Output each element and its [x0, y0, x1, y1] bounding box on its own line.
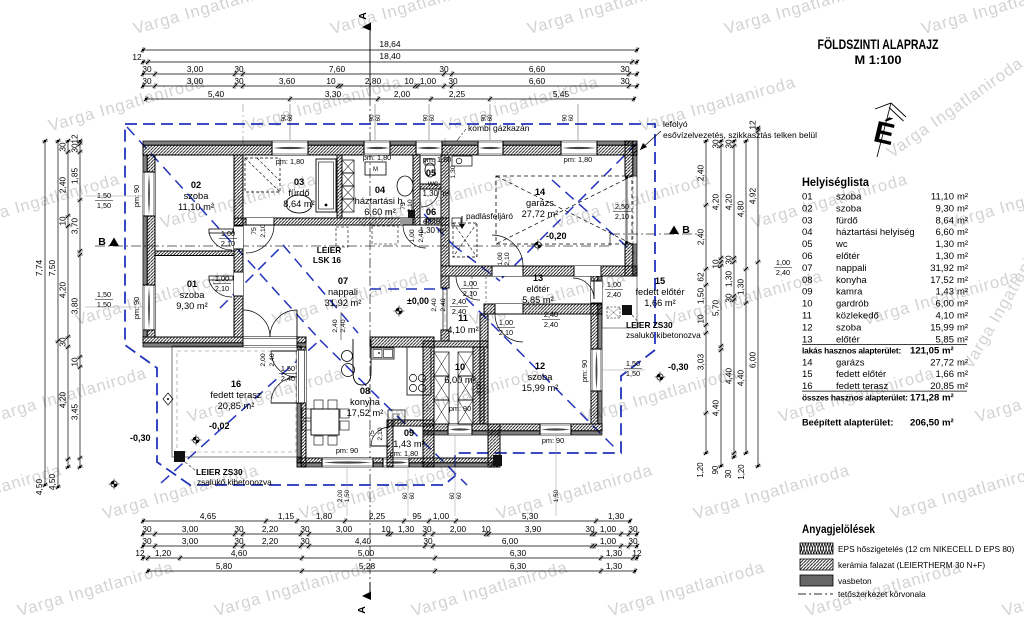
- svg-text:04: 04: [375, 185, 386, 195]
- svg-text:1,30: 1,30: [736, 279, 746, 296]
- svg-text:30: 30: [711, 139, 721, 149]
- svg-text:nappali: nappali: [328, 287, 358, 297]
- svg-text:06: 06: [802, 251, 813, 262]
- svg-text:1,00: 1,00: [409, 229, 416, 242]
- svg-text:31,92 m²: 31,92 m²: [325, 298, 362, 308]
- svg-text:12: 12: [132, 52, 142, 62]
- svg-text:m²: m²: [957, 322, 968, 333]
- svg-text:1,30 m²: 1,30 m²: [422, 189, 449, 198]
- svg-text:EPS hőszigetelés (12 cm NIKECE: EPS hőszigetelés (12 cm NIKECELL D EPS 8…: [838, 544, 1015, 554]
- svg-text:-0,30: -0,30: [130, 433, 151, 443]
- svg-text:kombi gázkazán: kombi gázkazán: [468, 123, 530, 133]
- svg-text:30: 30: [300, 524, 310, 534]
- svg-text:04: 04: [802, 227, 813, 238]
- svg-text:előtér: előtér: [836, 251, 860, 262]
- svg-text:4,40: 4,40: [736, 370, 746, 387]
- svg-text:1,66 m²: 1,66 m²: [644, 298, 676, 308]
- svg-text:60: 60: [487, 114, 494, 122]
- svg-text:háztartási helyiség: háztartási helyiség: [836, 227, 915, 238]
- svg-text:10: 10: [802, 299, 813, 310]
- svg-text:4,92: 4,92: [748, 188, 758, 205]
- svg-text:1,20: 1,20: [696, 462, 705, 478]
- svg-text:60: 60: [456, 492, 463, 500]
- svg-text:1,00: 1,00: [600, 536, 617, 546]
- svg-text:m²: m²: [957, 287, 968, 298]
- svg-text:3,00: 3,00: [187, 76, 204, 86]
- svg-text:m²: m²: [957, 203, 968, 214]
- svg-text:8,64: 8,64: [936, 215, 955, 226]
- svg-text:05: 05: [802, 239, 813, 250]
- svg-text:2,40: 2,40: [281, 374, 295, 383]
- svg-text:m²: m²: [957, 215, 968, 226]
- svg-text:m²: m²: [957, 311, 968, 322]
- svg-text:2,40: 2,40: [431, 298, 438, 311]
- svg-text:5,00: 5,00: [358, 548, 375, 558]
- svg-text:4,20: 4,20: [58, 282, 68, 299]
- svg-text:30: 30: [142, 524, 152, 534]
- svg-text:1,43: 1,43: [936, 287, 955, 298]
- svg-text:14: 14: [535, 187, 546, 197]
- svg-text:pm: 1,80: pm: 1,80: [390, 449, 418, 458]
- svg-text:7,60: 7,60: [329, 64, 346, 74]
- svg-text:2,00: 2,00: [394, 89, 411, 99]
- svg-text:1,50: 1,50: [626, 359, 640, 368]
- svg-text:1,20: 1,20: [737, 464, 746, 480]
- svg-text:18,40: 18,40: [379, 51, 401, 61]
- svg-text:62: 62: [696, 272, 706, 282]
- svg-text:Beépített alapterület:: Beépített alapterület:: [802, 418, 893, 428]
- svg-text:padlásfeljáró: padlásfeljáró: [466, 211, 513, 221]
- svg-text:1,00: 1,00: [463, 279, 477, 288]
- svg-text:1,66: 1,66: [936, 369, 955, 380]
- svg-text:pm: 1,80: pm: 1,80: [276, 157, 304, 166]
- svg-text:LEIER ZS30: LEIER ZS30: [626, 320, 673, 330]
- svg-text:1,50: 1,50: [97, 191, 111, 200]
- svg-text:pm: 1,80: pm: 1,80: [564, 155, 592, 164]
- svg-text:fedett terasz: fedett terasz: [210, 390, 262, 400]
- svg-text:30: 30: [628, 536, 638, 546]
- svg-text:pm: 1,80: pm: 1,80: [363, 153, 391, 162]
- svg-text:9,30: 9,30: [936, 203, 955, 214]
- svg-text:30: 30: [620, 76, 630, 86]
- svg-text:5,28: 5,28: [359, 561, 376, 571]
- svg-text:-0,30: -0,30: [668, 362, 689, 372]
- svg-text:60: 60: [287, 114, 294, 122]
- svg-text:konyha: konyha: [836, 275, 867, 286]
- svg-text:4,10: 4,10: [936, 311, 955, 322]
- svg-text:m²: m²: [957, 381, 968, 392]
- svg-text:2,40: 2,40: [269, 353, 276, 366]
- svg-text:30: 30: [724, 255, 734, 265]
- svg-text:4,65: 4,65: [200, 511, 217, 521]
- svg-text:30: 30: [724, 469, 733, 478]
- svg-text:garázs: garázs: [836, 357, 865, 368]
- svg-text:3,00: 3,00: [182, 536, 199, 546]
- svg-text:2,40: 2,40: [696, 165, 706, 182]
- svg-text:08: 08: [360, 386, 370, 396]
- svg-text:90: 90: [711, 465, 720, 474]
- svg-text:10: 10: [70, 357, 80, 367]
- svg-text:kamra: kamra: [836, 287, 863, 298]
- svg-text:02: 02: [191, 180, 201, 190]
- svg-text:13: 13: [533, 273, 543, 283]
- svg-text:10: 10: [481, 524, 491, 534]
- svg-text:lefolyó: lefolyó: [663, 119, 688, 129]
- svg-text:M 1:100: M 1:100: [855, 53, 902, 67]
- svg-text:m²: m²: [957, 275, 968, 286]
- svg-text:6,30: 6,30: [510, 561, 527, 571]
- svg-text:m²: m²: [957, 263, 968, 274]
- svg-text:2,40: 2,40: [544, 310, 558, 319]
- svg-text:2,40: 2,40: [418, 229, 425, 242]
- svg-text:2,20: 2,20: [262, 524, 279, 534]
- svg-text:3,80: 3,80: [70, 298, 80, 315]
- svg-text:fedett előtér: fedett előtér: [836, 369, 886, 380]
- svg-text:1,50: 1,50: [281, 364, 295, 373]
- svg-text:1,30: 1,30: [724, 271, 734, 288]
- svg-text:10: 10: [381, 524, 391, 534]
- svg-text:6,00: 6,00: [502, 536, 519, 546]
- svg-text:lakás hasznos alapterület:: lakás hasznos alapterület:: [802, 346, 901, 356]
- svg-text:A: A: [356, 606, 368, 614]
- svg-text:m²: m²: [957, 251, 968, 262]
- svg-text:1,50: 1,50: [696, 288, 706, 305]
- svg-text:fürdő: fürdő: [836, 215, 858, 226]
- svg-text:konyha: konyha: [350, 397, 381, 407]
- svg-text:03: 03: [294, 177, 304, 187]
- svg-text:07: 07: [338, 276, 348, 286]
- svg-text:2,10: 2,10: [215, 284, 229, 293]
- svg-text:5,85 m²: 5,85 m²: [522, 295, 554, 305]
- svg-text:LSK 16: LSK 16: [313, 255, 342, 265]
- svg-text:2,50: 2,50: [615, 202, 629, 211]
- svg-text:8,64 m²: 8,64 m²: [283, 199, 315, 209]
- svg-text:Anyagjelölések: Anyagjelölések: [802, 524, 876, 536]
- svg-text:4,50: 4,50: [34, 479, 44, 496]
- svg-text:előtér: előtér: [526, 284, 549, 294]
- svg-text:1,30: 1,30: [606, 548, 623, 558]
- svg-text:4,40: 4,40: [724, 368, 734, 385]
- svg-text:2,25: 2,25: [449, 89, 466, 99]
- svg-text:4,80: 4,80: [736, 201, 746, 218]
- svg-text:FÖLDSZINTI ALAPRAJZ: FÖLDSZINTI ALAPRAJZ: [818, 36, 939, 52]
- svg-text:wc: wc: [835, 239, 848, 250]
- svg-text:2,00: 2,00: [337, 489, 344, 502]
- svg-text:4,10 m²: 4,10 m²: [447, 325, 479, 335]
- svg-text:4,20: 4,20: [724, 194, 734, 211]
- svg-text:B: B: [98, 236, 106, 248]
- svg-text:12: 12: [70, 134, 80, 144]
- svg-text:12: 12: [535, 361, 545, 371]
- svg-text:esővízelvezetés, szikkasztás t: esővízelvezetés, szikkasztás telken belü…: [663, 130, 817, 140]
- svg-text:LEIER ZS30: LEIER ZS30: [196, 467, 243, 477]
- svg-text:60: 60: [449, 492, 456, 500]
- svg-text:1,85: 1,85: [70, 168, 80, 185]
- svg-text:garázs: garázs: [526, 198, 554, 208]
- svg-text:2,40: 2,40: [440, 298, 447, 311]
- svg-text:1,30: 1,30: [398, 524, 415, 534]
- svg-text:m²: m²: [957, 369, 968, 380]
- svg-text:2,40: 2,40: [58, 177, 68, 194]
- svg-text:2,40: 2,40: [696, 229, 706, 246]
- svg-text:1,50: 1,50: [97, 300, 111, 309]
- svg-text:12: 12: [135, 548, 145, 558]
- svg-text:B: B: [682, 224, 690, 236]
- svg-text:pm: 90: pm: 90: [449, 404, 471, 413]
- svg-text:1,20: 1,20: [155, 548, 172, 558]
- svg-text:3,30: 3,30: [325, 89, 342, 99]
- svg-text:17,52 m²: 17,52 m²: [347, 408, 384, 418]
- svg-text:szoba: szoba: [184, 191, 210, 201]
- svg-text:4,50: 4,50: [47, 474, 57, 491]
- svg-text:15,99: 15,99: [930, 322, 954, 333]
- svg-text:30: 30: [142, 536, 152, 546]
- svg-text:5,80: 5,80: [216, 561, 233, 571]
- svg-text:fedett előtér: fedett előtér: [635, 287, 684, 297]
- svg-text:2,40: 2,40: [332, 319, 339, 332]
- svg-text:1,00: 1,00: [221, 229, 235, 238]
- svg-text:31,92: 31,92: [930, 263, 954, 274]
- svg-text:15,99 m²: 15,99 m²: [522, 383, 559, 393]
- svg-text:4,40: 4,40: [355, 536, 372, 546]
- svg-text:közlekedő: közlekedő: [836, 311, 879, 322]
- svg-text:3,00: 3,00: [476, 381, 483, 394]
- svg-text:2,25: 2,25: [369, 511, 386, 521]
- svg-text:3,90: 3,90: [525, 524, 542, 534]
- svg-text:10: 10: [58, 216, 68, 226]
- svg-text:02: 02: [802, 203, 813, 214]
- svg-text:15: 15: [655, 276, 665, 286]
- svg-text:5,70: 5,70: [711, 300, 721, 317]
- svg-text:27,72: 27,72: [930, 357, 954, 368]
- svg-text:60: 60: [402, 492, 409, 500]
- svg-text:2,10: 2,10: [260, 224, 267, 237]
- svg-text:pm: 90: pm: 90: [336, 446, 358, 455]
- svg-text:pm: 90: pm: 90: [542, 436, 564, 445]
- svg-text:1,50: 1,50: [97, 201, 111, 210]
- svg-text:szoba: szoba: [836, 192, 862, 203]
- svg-text:3,03: 3,03: [696, 354, 706, 371]
- svg-text:6,60: 6,60: [529, 64, 546, 74]
- svg-text:08: 08: [802, 275, 813, 286]
- svg-text:m²: m²: [957, 239, 968, 250]
- svg-text:3,45: 3,45: [70, 404, 80, 421]
- svg-text:1,30: 1,30: [606, 561, 623, 571]
- svg-text:05: 05: [426, 168, 436, 178]
- svg-text:M: M: [373, 167, 378, 173]
- svg-text:30: 30: [142, 64, 152, 74]
- svg-text:09: 09: [802, 287, 813, 298]
- svg-text:10: 10: [711, 259, 721, 269]
- svg-text:1,30: 1,30: [936, 239, 955, 250]
- svg-text:30: 30: [620, 64, 630, 74]
- svg-text:30: 30: [423, 536, 433, 546]
- svg-text:30: 30: [70, 143, 80, 153]
- svg-text:A: A: [357, 12, 369, 20]
- svg-text:gardrób: gardrób: [836, 299, 869, 310]
- svg-text:6,30: 6,30: [510, 548, 527, 558]
- svg-text:2,10: 2,10: [499, 328, 513, 337]
- svg-text:2,10: 2,10: [407, 199, 414, 212]
- svg-text:30: 30: [422, 524, 432, 534]
- svg-text:75: 75: [251, 227, 258, 235]
- svg-text:1,30: 1,30: [450, 165, 457, 178]
- svg-text:10: 10: [326, 76, 336, 86]
- svg-text:75: 75: [400, 202, 407, 210]
- svg-text:kerámia falazat (LEIERTHERM 30: kerámia falazat (LEIERTHERM 30 N+F): [838, 560, 985, 570]
- svg-text:6,60: 6,60: [529, 76, 546, 86]
- svg-text:16: 16: [231, 379, 241, 389]
- svg-text:7,50: 7,50: [47, 260, 57, 277]
- svg-text:m²: m²: [957, 299, 968, 310]
- svg-text:2,80: 2,80: [365, 76, 382, 86]
- svg-text:szoba: szoba: [528, 372, 554, 382]
- svg-text:2,20: 2,20: [262, 536, 279, 546]
- svg-text:1,50: 1,50: [344, 489, 351, 502]
- svg-text:11,10 m²: 11,10 m²: [178, 202, 214, 212]
- svg-text:7,74: 7,74: [34, 260, 44, 277]
- svg-text:2,40: 2,40: [776, 268, 790, 277]
- svg-text:m²: m²: [957, 334, 968, 345]
- svg-text:szoba: szoba: [836, 203, 862, 214]
- svg-text:12: 12: [632, 548, 642, 558]
- svg-text:1,15: 1,15: [278, 511, 295, 521]
- svg-text:2,40: 2,40: [452, 307, 466, 316]
- svg-text:12: 12: [748, 120, 758, 130]
- svg-text:07: 07: [802, 263, 813, 274]
- svg-text:1,50: 1,50: [626, 369, 640, 378]
- svg-text:14: 14: [802, 357, 813, 368]
- svg-text:vasbeton: vasbeton: [838, 576, 872, 586]
- svg-text:95: 95: [412, 511, 422, 521]
- svg-text:pm: 90: pm: 90: [132, 185, 141, 207]
- svg-text:60: 60: [429, 114, 436, 122]
- svg-text:2,10: 2,10: [615, 212, 629, 221]
- svg-text:60: 60: [568, 114, 575, 122]
- svg-text:pm: 90: pm: 90: [580, 360, 589, 382]
- svg-text:10: 10: [455, 362, 465, 372]
- svg-text:2,40: 2,40: [452, 297, 466, 306]
- svg-text:1,30: 1,30: [608, 511, 625, 521]
- svg-text:3,60: 3,60: [279, 76, 296, 86]
- svg-text:121,05 m²: 121,05 m²: [910, 346, 954, 357]
- svg-text:11: 11: [802, 311, 812, 322]
- svg-text:4,20: 4,20: [711, 194, 721, 211]
- svg-text:2,10: 2,10: [504, 252, 511, 265]
- svg-text:fürdő: fürdő: [288, 188, 309, 198]
- svg-text:1,00: 1,00: [433, 511, 450, 521]
- svg-text:30: 30: [234, 524, 244, 534]
- svg-text:1,00: 1,00: [776, 258, 790, 267]
- svg-text:17,52: 17,52: [930, 275, 954, 286]
- svg-text:12: 12: [802, 322, 813, 333]
- svg-text:3,00: 3,00: [187, 64, 204, 74]
- svg-text:20,85: 20,85: [930, 381, 954, 392]
- svg-text:1,50: 1,50: [553, 489, 560, 502]
- svg-text:m²: m²: [957, 192, 968, 203]
- svg-text:30: 30: [585, 524, 595, 534]
- svg-text:206,50 m²: 206,50 m²: [910, 418, 954, 429]
- svg-text:9,30 m²: 9,30 m²: [176, 301, 208, 311]
- svg-text:±0,00: ±0,00: [407, 296, 429, 306]
- svg-text:2,00: 2,00: [260, 353, 267, 366]
- svg-text:2,00: 2,00: [450, 524, 467, 534]
- svg-text:27,72 m²: 27,72 m²: [522, 209, 559, 219]
- svg-text:20,85 m²: 20,85 m²: [218, 401, 255, 411]
- svg-text:30: 30: [58, 142, 68, 152]
- svg-text:30: 30: [448, 76, 458, 86]
- svg-text:3,00: 3,00: [182, 524, 199, 534]
- svg-text:wc: wc: [427, 178, 439, 188]
- svg-text:előtér: előtér: [836, 334, 860, 345]
- svg-text:4,20: 4,20: [58, 392, 68, 409]
- svg-text:30: 30: [628, 524, 638, 534]
- svg-text:4,60: 4,60: [231, 548, 248, 558]
- svg-text:1,00: 1,00: [607, 280, 621, 289]
- svg-text:30: 30: [58, 337, 68, 347]
- svg-text:előtér: előtér: [423, 217, 443, 226]
- svg-text:1,00: 1,00: [215, 274, 229, 283]
- svg-text:1,43 m²: 1,43 m²: [393, 439, 425, 449]
- svg-text:18,64: 18,64: [379, 39, 401, 49]
- svg-text:01: 01: [802, 192, 813, 203]
- svg-text:1,00: 1,00: [600, 524, 617, 534]
- svg-text:1,00: 1,00: [499, 318, 513, 327]
- svg-text:háztartási h.: háztartási h.: [355, 196, 406, 206]
- svg-text:30: 30: [234, 64, 244, 74]
- svg-text:2,40: 2,40: [607, 290, 621, 299]
- svg-text:30: 30: [724, 139, 734, 149]
- svg-text:30: 30: [142, 76, 152, 86]
- svg-text:m²: m²: [957, 357, 968, 368]
- svg-text:összes hasznos alapterület:: összes hasznos alapterület:: [802, 393, 908, 403]
- svg-text:10: 10: [696, 314, 706, 324]
- svg-text:30: 30: [234, 536, 244, 546]
- svg-text:2,10: 2,10: [221, 239, 235, 248]
- svg-text:szoba: szoba: [836, 322, 862, 333]
- svg-text:1,00: 1,00: [420, 76, 437, 86]
- svg-text:szoba: szoba: [180, 290, 206, 300]
- svg-text:15: 15: [802, 369, 813, 380]
- svg-text:03: 03: [802, 215, 813, 226]
- svg-text:fedett terasz: fedett terasz: [836, 381, 889, 392]
- svg-text:1,30: 1,30: [936, 251, 955, 262]
- svg-text:6,00: 6,00: [748, 352, 758, 369]
- svg-text:5,40: 5,40: [208, 89, 225, 99]
- svg-text:1,50: 1,50: [97, 290, 111, 299]
- svg-text:30: 30: [724, 293, 734, 303]
- svg-text:2,40: 2,40: [544, 320, 558, 329]
- svg-text:75: 75: [369, 430, 376, 438]
- svg-text:30: 30: [439, 64, 449, 74]
- svg-text:4,40: 4,40: [711, 400, 721, 417]
- svg-text:1,80: 1,80: [316, 511, 333, 521]
- svg-text:13: 13: [802, 334, 813, 345]
- svg-text:6,60: 6,60: [936, 227, 955, 238]
- svg-text:01: 01: [187, 279, 197, 289]
- svg-text:5,30: 5,30: [522, 511, 539, 521]
- svg-text:zsalukő kibetonozva: zsalukő kibetonozva: [197, 477, 272, 487]
- svg-text:06: 06: [426, 207, 436, 217]
- svg-text:tetőszerkezet körvonala: tetőszerkezet körvonala: [838, 589, 926, 599]
- svg-text:Helyiséglista: Helyiséglista: [802, 175, 869, 189]
- svg-text:30: 30: [234, 76, 244, 86]
- svg-text:5,45: 5,45: [553, 89, 570, 99]
- svg-text:6,00 m²: 6,00 m²: [444, 375, 476, 385]
- svg-text:2,10: 2,10: [377, 427, 384, 440]
- svg-text:pm: 1,80: pm: 1,80: [423, 155, 451, 164]
- svg-text:LEIER: LEIER: [317, 245, 341, 255]
